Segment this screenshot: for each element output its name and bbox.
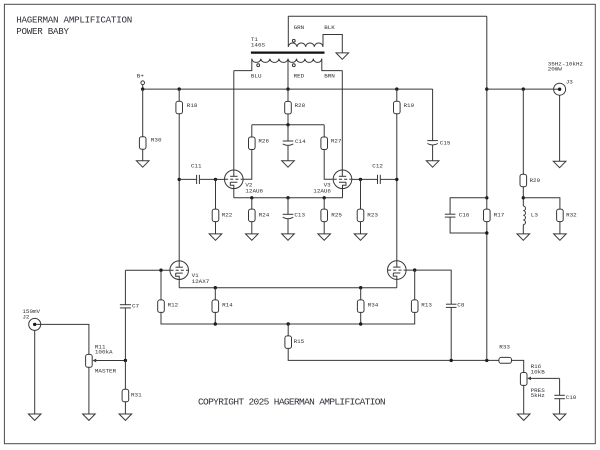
node output line at zobel bottom xyxy=(485,231,488,234)
resistor R14 xyxy=(212,300,233,313)
svg-text:R17: R17 xyxy=(494,211,505,218)
wire (screen supply rail) xyxy=(252,124,324,126)
node cathode rail at R34 xyxy=(359,286,362,289)
svg-text:COPYRIGHT 2025 HAGERMAN AMPLIF: COPYRIGHT 2025 HAGERMAN AMPLIFICATION xyxy=(198,396,385,407)
wire (V3 grid to C12) xyxy=(352,178,378,180)
node feedback line at output line xyxy=(485,359,488,362)
svg-text:C14: C14 xyxy=(295,138,306,145)
connector J2 xyxy=(22,308,40,331)
svg-text:R19: R19 xyxy=(404,102,415,109)
svg-text:12AU6: 12AU6 xyxy=(245,188,263,195)
svg-text:L3: L3 xyxy=(531,211,539,218)
wire (V2 cathode lead) xyxy=(233,189,235,198)
svg-text:10kB: 10kB xyxy=(531,368,546,375)
svg-text:C10: C10 xyxy=(566,394,577,401)
potentiometer R16 xyxy=(520,363,559,399)
resistor R27 xyxy=(321,137,342,150)
resistor R24 xyxy=(249,209,270,222)
resistor R29 xyxy=(520,174,541,187)
svg-text:C7: C7 xyxy=(132,302,140,309)
wire (R25 to ground) xyxy=(323,222,325,234)
ground (C14) xyxy=(282,161,295,167)
wire (lower rail R12-R13) xyxy=(161,312,415,324)
svg-text:146S: 146S xyxy=(251,41,266,48)
node cathode rail at R24 xyxy=(250,196,253,199)
svg-text:C11: C11 xyxy=(191,163,202,170)
svg-text:RED: RED xyxy=(294,73,305,80)
wire (J2 to ground) xyxy=(34,330,36,414)
node B+ rail at R18 xyxy=(178,87,181,90)
wire (R14 drop) xyxy=(214,288,216,300)
wire (node down to R31) xyxy=(124,361,126,390)
node cathode rail at C13 xyxy=(286,196,289,199)
node R11 wiper / C7 / R31 xyxy=(124,359,127,362)
wire (V1 grid line) xyxy=(125,269,169,271)
wire (B+ rail) xyxy=(143,88,433,90)
capacitor C13 xyxy=(283,198,306,234)
wire (grid node down to R22) xyxy=(215,179,217,209)
svg-text:R33: R33 xyxy=(499,344,510,351)
wire (L3 to ground) xyxy=(522,225,524,234)
wire (R34 drop) xyxy=(360,288,362,300)
svg-text:C15: C15 xyxy=(440,140,451,147)
ground (transformer BLK) xyxy=(336,53,349,59)
resistor R34 xyxy=(357,300,378,313)
svg-text:C8: C8 xyxy=(457,301,465,308)
node output rail at R29 xyxy=(522,87,525,90)
resistor R19 xyxy=(394,101,415,114)
svg-text:C16: C16 xyxy=(459,211,470,218)
wire (C16 bottom to output line) xyxy=(450,217,487,233)
ground (L3) xyxy=(517,234,530,240)
node B+ rail at center tap / R28 xyxy=(286,87,289,90)
svg-text:J3: J3 xyxy=(566,78,574,85)
wire (BRN lead down to V3 plate) xyxy=(341,71,343,177)
svg-text:BLK: BLK xyxy=(324,24,335,31)
wire (R24 to ground) xyxy=(251,222,253,234)
wire (R27 to V3 screen grid) xyxy=(324,150,333,180)
B+ terminal xyxy=(137,73,145,90)
node V4 grid / R13 xyxy=(413,268,416,271)
svg-text:R32: R32 xyxy=(566,211,577,218)
svg-text:R24: R24 xyxy=(259,212,270,219)
resistor R32 xyxy=(557,209,578,222)
wire (rail down to R25) xyxy=(323,198,325,209)
wire (R15 drop) xyxy=(287,324,289,336)
ground (C10) xyxy=(553,414,566,420)
wire (R19 line down to V4 plate) xyxy=(396,89,398,267)
svg-text:R26: R26 xyxy=(258,138,269,145)
node feedback line at C8 xyxy=(450,359,453,362)
wire (J2 to R11 top) xyxy=(41,324,89,354)
resistor R15 xyxy=(285,336,305,349)
wire (J3 to ground) xyxy=(559,95,561,161)
svg-text:12AU6: 12AU6 xyxy=(313,188,331,195)
resistor R31 xyxy=(122,389,142,402)
transformer T1 xyxy=(234,16,342,89)
ground (R24) xyxy=(246,234,259,240)
resistor R26 xyxy=(249,137,270,150)
node screen rail at C14 xyxy=(286,123,289,126)
ground (R22) xyxy=(209,234,222,240)
resistor R30 xyxy=(139,137,162,150)
node V3 grid / R23 xyxy=(359,178,362,181)
svg-text:R13: R13 xyxy=(421,301,432,308)
capacitor C10 xyxy=(554,394,576,401)
capacitor C16 xyxy=(445,211,470,218)
wire (R30 drop) xyxy=(142,89,144,161)
resistor R22 xyxy=(212,209,233,222)
resistor R23 xyxy=(357,209,378,222)
wire (R26 to V2 screen grid) xyxy=(243,150,252,180)
node output line at B+ level rail xyxy=(485,87,488,90)
wire (R32 to ground) xyxy=(559,222,561,234)
ground (R30) xyxy=(136,161,149,167)
wire (R13 drop from grid node) xyxy=(414,270,416,300)
resistor R13 xyxy=(411,300,432,313)
wire (rail corner down to C15) xyxy=(432,89,434,141)
ground (R23) xyxy=(354,234,367,240)
svg-text:R34: R34 xyxy=(368,301,379,308)
resistor R33 xyxy=(499,344,512,364)
ground (C13) xyxy=(282,234,295,240)
wire (zobel top branch to C16) xyxy=(450,198,487,214)
ground (R31) xyxy=(119,414,132,420)
wire (rail down to R24) xyxy=(251,198,253,209)
svg-text:5kHz: 5kHz xyxy=(531,392,546,399)
ground (J2) xyxy=(28,414,41,420)
svg-text:R18: R18 xyxy=(187,102,198,109)
resistor R25 xyxy=(321,209,342,222)
wire (V3 cathode lead) xyxy=(342,189,344,198)
svg-text:R31: R31 xyxy=(131,392,142,399)
wire (R16 bottom to ground) xyxy=(523,385,525,414)
capacitor C12 xyxy=(372,163,383,184)
node B+ rail at R30 xyxy=(141,87,144,90)
tube V4 xyxy=(388,261,407,280)
svg-text:R25: R25 xyxy=(331,212,342,219)
tube V2 xyxy=(225,170,264,195)
svg-text:R15: R15 xyxy=(294,338,305,345)
wire (screen rail down to R27) xyxy=(323,125,325,137)
capacitor C14 xyxy=(283,125,306,161)
wire (R31 to ground) xyxy=(124,402,126,414)
svg-text:12AX7: 12AX7 xyxy=(192,278,210,285)
wire (screen rail down to R26) xyxy=(251,125,253,137)
ground (R25) xyxy=(318,234,331,240)
svg-text:C13: C13 xyxy=(294,212,305,219)
wire (R34 to lower rail) xyxy=(360,312,362,324)
svg-text:BRN: BRN xyxy=(324,73,335,80)
wire (R23 to ground) xyxy=(360,222,362,234)
ground (R11) xyxy=(83,414,96,420)
node R19 line / C12 xyxy=(395,178,398,181)
svg-text:100kA: 100kA xyxy=(95,349,113,356)
node R18 line / C11 xyxy=(178,178,181,181)
node cathode rail at R14 xyxy=(214,286,217,289)
node lower rail at R14 xyxy=(214,322,217,325)
node B+ rail at R19 xyxy=(395,87,398,90)
wire (C11 to V2 grid) xyxy=(199,178,224,180)
resistor R17 xyxy=(484,209,505,222)
wire (R33 to R16 top) xyxy=(512,360,524,372)
wire (R18 node to C11) xyxy=(179,178,196,180)
capacitor C15 xyxy=(427,140,451,161)
inductor L3 xyxy=(523,206,538,225)
capacitor C8 xyxy=(446,301,465,308)
svg-text:MASTER: MASTER xyxy=(95,368,117,375)
node cathode rail at R25 xyxy=(323,196,326,199)
svg-text:GRN: GRN xyxy=(294,24,305,31)
wire (cathode rail V1-V4) xyxy=(179,287,397,289)
wire (C12 to R19 line) xyxy=(380,178,397,180)
ground (R16) xyxy=(517,414,530,420)
wire (R22 to ground) xyxy=(215,222,217,234)
svg-text:R22: R22 xyxy=(222,212,233,219)
svg-text:R28: R28 xyxy=(295,102,306,109)
wire (V1 cathode lead) xyxy=(178,280,180,288)
ground (J3) xyxy=(553,161,566,167)
node R29 / L3 / R32 xyxy=(522,196,525,199)
wire (node to R32) xyxy=(523,198,560,209)
wire (output line from top to feedback node) xyxy=(486,16,488,360)
wire (R16 wiper down to C10) xyxy=(559,378,561,395)
svg-text:HAGERMAN AMPLIFICATION: HAGERMAN AMPLIFICATION xyxy=(16,15,132,26)
wire (R14 to lower rail) xyxy=(214,312,216,324)
wire (R29 to L3 node) xyxy=(522,187,524,206)
svg-text:R23: R23 xyxy=(367,212,378,219)
tube V1 xyxy=(170,261,210,285)
node V1 grid / R12 xyxy=(159,269,162,272)
tube V3 xyxy=(313,170,352,195)
wire (R18 line down to V1 plate) xyxy=(178,89,180,267)
connector J3 xyxy=(548,60,584,95)
node V2 grid / R22 xyxy=(214,178,217,181)
svg-text:R30: R30 xyxy=(151,137,162,144)
wire (C8 down to feedback line) xyxy=(450,307,452,360)
wire (R11 bottom to ground) xyxy=(88,367,90,414)
resistor R12 xyxy=(158,300,179,313)
node lower rail at R15 xyxy=(287,322,290,325)
svg-text:BLU: BLU xyxy=(251,73,262,80)
wire (output rail to J3) xyxy=(487,88,554,90)
potentiometer R11 xyxy=(86,343,126,374)
svg-text:C12: C12 xyxy=(372,163,383,170)
wire (V4 cathode lead) xyxy=(396,279,398,287)
node lower rail at R34 xyxy=(359,322,362,325)
svg-text:POWER BABY: POWER BABY xyxy=(16,26,69,37)
ground (C15) xyxy=(426,161,439,167)
node output line at zobel top xyxy=(485,196,488,199)
wire (V4 grid line to C8 corner) xyxy=(406,270,451,304)
svg-text:R27: R27 xyxy=(331,138,342,145)
svg-text:R29: R29 xyxy=(530,177,541,184)
capacitor C7 xyxy=(120,270,140,360)
resistor R18 xyxy=(176,101,198,114)
svg-text:J2: J2 xyxy=(22,313,30,320)
ground (R32) xyxy=(554,234,567,240)
svg-text:R12: R12 xyxy=(168,301,179,308)
wire (R15 to feedback line) xyxy=(288,348,499,360)
wire (R28 drop from tap to screen rail) xyxy=(287,89,289,125)
capacitor C11 xyxy=(191,163,202,184)
svg-text:R14: R14 xyxy=(222,301,233,308)
wire (R29 drop) xyxy=(522,89,524,174)
wire (grid node down to R12) xyxy=(160,270,162,300)
wire (grid node down to R23) xyxy=(360,179,362,209)
wire (BLU lead down to V2 plate) xyxy=(233,71,235,177)
wire (cathode rail V2-V3) xyxy=(234,197,343,199)
wire (GRN to output top line) xyxy=(288,15,487,17)
wire (C10 to ground) xyxy=(559,399,561,414)
resistor R28 xyxy=(285,101,306,114)
title text xyxy=(16,15,132,37)
svg-text:20mW: 20mW xyxy=(548,66,563,73)
svg-text:B+: B+ xyxy=(137,73,145,80)
